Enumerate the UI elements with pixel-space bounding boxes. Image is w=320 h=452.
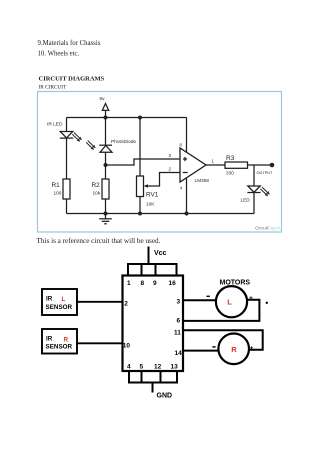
label LED — [241, 198, 251, 203]
wire node A to opamp noninverting input pin 3 — [106, 159, 181, 165]
label IR LED — [47, 122, 63, 128]
wire output to LED — [253, 165, 255, 186]
photodiode incident arrows — [86, 141, 96, 150]
wire rail to photodiode — [105, 118, 107, 146]
wire pin 3 to motor L — [183, 299, 216, 301]
wire sensor R to pin 10 — [77, 342, 123, 344]
op-amp U1 LM358 — [180, 148, 206, 182]
svg-text:IR LED: IR LED — [47, 122, 63, 128]
svg-text:RV1: RV1 — [146, 192, 159, 199]
LED D3 indicator — [247, 186, 260, 193]
wire LED to ground rail — [253, 193, 255, 214]
wire sensor L to pin 2 — [77, 301, 123, 303]
pin 3 label — [169, 153, 172, 158]
label motor R — [231, 345, 237, 354]
label R2 — [92, 182, 101, 189]
svg-text:4: 4 — [127, 363, 131, 370]
svg-text:100: 100 — [54, 191, 62, 196]
pin 4 label — [180, 186, 183, 191]
svg-text:IR: IR — [46, 296, 53, 303]
svg-text:9: 9 — [153, 280, 157, 287]
svg-text:12: 12 — [154, 363, 162, 370]
svg-text:1: 1 — [212, 159, 215, 164]
wire R3 to OUTPUT terminal — [248, 164, 273, 166]
svg-text:1: 1 — [127, 280, 131, 287]
svg-text:10k: 10k — [93, 191, 101, 196]
svg-text:8: 8 — [180, 143, 183, 148]
watermark CircuitDigest — [255, 226, 281, 231]
svg-text:OUTPUT: OUTPUT — [257, 170, 274, 175]
label R1 — [52, 182, 61, 189]
wire RV1 to ground rail — [139, 197, 141, 214]
motor L — [216, 286, 247, 317]
node A junction — [104, 163, 108, 167]
heading CIRCUIT DIAGRAMS — [39, 76, 105, 83]
wire opamp output pin 1 to R3 — [206, 164, 225, 166]
svg-text:GND: GND — [157, 393, 173, 400]
motor L plus mark — [249, 295, 253, 302]
node opamp ground junction — [185, 212, 189, 216]
IC U2 motor driver body — [123, 276, 184, 372]
pin 11 label U2 — [174, 330, 181, 337]
wire node A to R2 — [105, 165, 107, 179]
pin 8 label U2 — [141, 280, 145, 287]
label IR SENSOR L — [46, 296, 73, 311]
document text line 2 — [38, 51, 80, 58]
subheading IR CIRCUIT — [39, 85, 68, 91]
svg-text:R: R — [64, 337, 69, 344]
pin 16 label U2 — [169, 280, 177, 287]
caption text — [37, 237, 161, 245]
label 5v — [100, 96, 106, 102]
pin 9 label U2 — [153, 280, 157, 287]
svg-text:SENSOR: SENSOR — [46, 344, 73, 351]
pin 5 label U2 — [140, 363, 144, 370]
photodiode D2 — [99, 145, 112, 152]
svg-text:8: 8 — [141, 280, 145, 287]
pin 1 label — [212, 159, 215, 164]
node 5v junction — [104, 116, 108, 120]
svg-text:2: 2 — [124, 301, 128, 308]
value label 100 — [54, 191, 62, 196]
power 5v symbol — [102, 104, 108, 118]
label IR SENSOR R — [46, 335, 73, 350]
label MOTORS — [220, 280, 251, 287]
wire motor L to pin 6 — [183, 300, 259, 321]
pin 2 label — [169, 167, 172, 172]
ground symbol — [99, 214, 112, 224]
svg-text:LED: LED — [241, 198, 251, 203]
svg-text:3: 3 — [169, 153, 172, 158]
svg-text:14: 14 — [175, 350, 183, 357]
svg-text:9.Materials for Chassis: 9.Materials for Chassis — [38, 40, 101, 47]
LED D1 IR LED — [60, 132, 73, 139]
value label 10k — [93, 191, 101, 196]
label PhotoDiode — [111, 139, 136, 145]
wire opamp power pin 8 — [186, 118, 188, 153]
resistor R1 — [63, 179, 70, 199]
wire R2 to ground rail — [105, 199, 107, 214]
IR LED emission arrows — [72, 133, 82, 142]
svg-text:Digest: Digest — [268, 226, 282, 231]
svg-text:L: L — [62, 296, 66, 303]
IC U2 bottom pin header bar — [129, 371, 177, 383]
value label 330 — [226, 171, 234, 176]
pin 1 label U2 — [127, 280, 131, 287]
svg-text:R2: R2 — [92, 182, 101, 189]
wire GND stem — [152, 383, 154, 393]
pin 2 label U2 — [124, 301, 128, 308]
IR sensor left box — [42, 289, 77, 315]
svg-text:IR: IR — [46, 335, 53, 342]
document text line 1 — [38, 40, 101, 47]
node RV1 ground junction — [138, 212, 142, 216]
motor R minus mark — [212, 346, 215, 348]
value label 10K — [146, 202, 155, 207]
svg-text:Vcc: Vcc — [154, 250, 167, 257]
svg-text:10K: 10K — [146, 202, 155, 207]
node RV1 top junction — [138, 116, 142, 120]
svg-text:16: 16 — [169, 280, 177, 287]
label GND — [157, 393, 173, 400]
pin 14 label U2 — [175, 350, 183, 357]
label RV1 — [146, 192, 159, 199]
svg-text:3: 3 — [177, 299, 181, 306]
IC U2 top pin header bar — [128, 264, 177, 276]
wire pin 11 to motor R plus — [183, 330, 263, 349]
svg-text:10. Wheels etc.: 10. Wheels etc. — [38, 51, 80, 58]
svg-text:2: 2 — [169, 167, 172, 172]
wire IR LED to R1 — [66, 138, 68, 179]
wire top rail — [67, 117, 187, 119]
wire RV1 wiper to opamp inverting input pin 2 — [149, 173, 181, 187]
svg-text:330: 330 — [226, 171, 234, 176]
wire rail to RV1 — [139, 118, 141, 177]
pin 10 label U2 — [123, 343, 131, 350]
wire opamp power pin 4 — [186, 178, 188, 214]
wire pin 14 to motor R minus — [183, 350, 218, 352]
svg-text:SENSOR: SENSOR — [46, 304, 73, 311]
svg-text:+: + — [249, 295, 253, 302]
svg-text:4: 4 — [180, 186, 183, 191]
svg-text:R: R — [231, 345, 237, 354]
svg-text:5v: 5v — [100, 96, 106, 102]
svg-text:10: 10 — [123, 343, 131, 350]
svg-text:R3: R3 — [226, 155, 235, 162]
pin 12 label U2 — [154, 363, 162, 370]
pin 13 label U2 — [171, 363, 179, 370]
wire bottom rail — [67, 213, 255, 215]
svg-text:+: + — [250, 345, 254, 352]
svg-text:CIRCUIT DIAGRAMS: CIRCUIT DIAGRAMS — [39, 76, 105, 83]
wire R1 to ground rail — [66, 199, 68, 214]
svg-text:MOTORS: MOTORS — [220, 280, 251, 287]
motor L minus mark — [207, 295, 210, 297]
svg-text:13: 13 — [171, 363, 179, 370]
svg-text:R1: R1 — [52, 182, 61, 189]
label Vcc — [154, 250, 167, 257]
label R3 — [226, 155, 235, 162]
svg-text:11: 11 — [174, 330, 181, 337]
IR sensor right box — [42, 329, 77, 354]
wire Vcc stem — [148, 247, 150, 265]
node R2 ground junction — [104, 212, 108, 216]
pin 8 label — [180, 143, 183, 148]
schematic frame box — [38, 92, 282, 233]
svg-text:LM358: LM358 — [195, 178, 210, 183]
svg-text:L: L — [227, 298, 232, 307]
OUTPUT terminal node — [270, 163, 275, 168]
wire rail to IR LED — [66, 118, 68, 132]
motor R — [218, 334, 249, 365]
svg-text:This is a reference circuit th: This is a reference circuit that will be… — [37, 237, 161, 245]
resistor R3 — [225, 162, 248, 168]
pin 4 label U2 — [127, 363, 131, 370]
motor R plus mark — [250, 345, 254, 352]
label motor L — [227, 298, 232, 307]
LED emission arrows — [260, 187, 270, 196]
svg-text:6: 6 — [177, 318, 181, 325]
potentiometer RV1 — [137, 176, 149, 197]
resistor R2 — [102, 179, 109, 199]
svg-text:IR CIRCUIT: IR CIRCUIT — [39, 85, 68, 91]
wire photodiode to node A — [105, 152, 107, 165]
pin 3 label U2 — [177, 299, 181, 306]
stray dot mark — [266, 302, 268, 304]
svg-text:PhotoDiode: PhotoDiode — [111, 139, 136, 145]
svg-text:5: 5 — [140, 363, 144, 370]
label LM358 — [195, 178, 210, 183]
pin 6 label U2 — [177, 318, 181, 325]
label OUTPUT — [257, 170, 274, 175]
